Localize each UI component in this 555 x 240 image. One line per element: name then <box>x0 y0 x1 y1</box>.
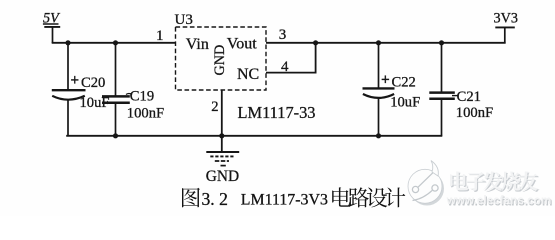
svg-text:5V: 5V <box>43 11 61 27</box>
svg-text:10uF: 10uF <box>390 94 420 110</box>
wire pin3 rail Vout to 3V3 <box>266 42 506 44</box>
svg-text:100nF: 100nF <box>456 105 493 121</box>
svg-text:LM1117-3V3: LM1117-3V3 <box>241 192 328 209</box>
svg-text:LM1117-33: LM1117-33 <box>238 103 316 122</box>
svg-text:2: 2 <box>211 99 218 115</box>
wire bottom ground rail <box>66 135 442 137</box>
watermark logo elecfans circle <box>408 161 444 206</box>
capacitor C22 10uF polarized <box>363 43 395 136</box>
svg-text:U3: U3 <box>175 12 193 28</box>
power rail 3V3 <box>495 27 515 43</box>
capacitor C21 100nF <box>429 43 455 136</box>
junction node (115.5,135) <box>113 133 118 138</box>
svg-text:+: + <box>381 72 390 89</box>
watermark text 电子发烧友 <box>451 173 469 192</box>
svg-text:3: 3 <box>279 27 287 43</box>
junction node (378.5,135) <box>376 133 381 138</box>
svg-text:C21: C21 <box>457 89 481 105</box>
svg-text:GND: GND <box>206 168 239 185</box>
svg-text:Vout: Vout <box>227 36 257 53</box>
capacitor C19 100nF <box>102 43 130 136</box>
capacitor C20 10uF polarized <box>52 43 86 136</box>
junction node (378.5,42) <box>376 40 381 45</box>
ground symbol earth <box>206 152 239 166</box>
svg-text:4: 4 <box>281 59 289 75</box>
svg-text:NC: NC <box>237 66 259 83</box>
wire top-left rail 5V to Vin <box>52 42 176 44</box>
svg-text:Vin: Vin <box>186 36 209 53</box>
svg-text:C19: C19 <box>130 89 154 105</box>
svg-text:C22: C22 <box>392 75 416 91</box>
junction node (441.5,42) <box>439 40 444 45</box>
svg-text:C20: C20 <box>81 75 105 91</box>
svg-text:GND: GND <box>212 45 228 76</box>
svg-text:100nF: 100nF <box>127 105 164 121</box>
junction node (115.5,42) <box>113 40 118 45</box>
svg-text:3. 2: 3. 2 <box>202 189 228 209</box>
junction node (68,42) <box>65 40 70 45</box>
power rail 5V <box>43 24 60 43</box>
wire pin4 NC jog <box>266 43 316 73</box>
svg-text:+: + <box>70 72 79 89</box>
IC U3 LM1117-33 dashed body <box>176 27 267 90</box>
svg-text:3V3: 3V3 <box>494 11 518 27</box>
junction node (315.6,42) <box>313 40 318 45</box>
wire U3 GND pin down <box>221 90 223 152</box>
svg-text:www.elecfans.com: www.elecfans.com <box>446 194 552 207</box>
junction node (221.8,135) <box>219 133 224 138</box>
svg-text:1: 1 <box>156 28 164 44</box>
caption: 图 3.2 LM1117-3V3 电路设计 <box>182 188 200 208</box>
